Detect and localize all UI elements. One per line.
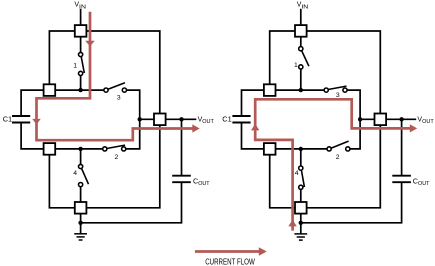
- wire node to switch 4: [80, 149, 82, 165]
- wire node to switch 4 (right): [300, 149, 302, 166]
- wire COUT bottom to ground return: [81, 182, 182, 223]
- switch 2 (right, open): [327, 141, 350, 151]
- pin box SW1 (right): [264, 84, 276, 96]
- capacitor COUT (left): [172, 176, 191, 183]
- current arrow down at VIN (left): [85, 41, 95, 47]
- switch 2 (left, conducting): [103, 145, 126, 151]
- junction node ground return (left): [78, 221, 82, 225]
- wire rail SW2: pin box to switch 2: [55, 148, 103, 150]
- wire VIN stem (left): [80, 9, 82, 25]
- pin box SW2 (left): [44, 143, 56, 155]
- svg-text:1: 1: [294, 62, 298, 69]
- wire top rail left segment (right): [270, 31, 295, 85]
- wire output node down to COUT (right): [401, 119, 403, 175]
- junction node switch1/rail (right): [299, 88, 303, 92]
- svg-text:4: 4: [295, 170, 299, 177]
- current flow legend arrow: [195, 247, 267, 256]
- junction node VOUT output (left): [179, 117, 183, 121]
- switch 3 (left, open): [104, 83, 127, 92]
- pin box GND (left): [75, 202, 87, 214]
- junction node switch1/rail (left): [78, 88, 82, 92]
- junction node VOUT box left side: [138, 117, 142, 121]
- pin box SW1 (left): [44, 84, 56, 96]
- wire top rail right segment: [86, 31, 159, 114]
- junction node VOUT output (right): [399, 117, 403, 121]
- wire ground rail to VOUT column (right): [307, 125, 381, 208]
- current arrow up at C1 (right): [251, 124, 259, 131]
- pin box VOUT (left): [154, 114, 166, 126]
- wire switch 3 to node VOUT-left: [126, 90, 154, 119]
- svg-text:C1: C1: [3, 115, 12, 124]
- wire ground rail to VOUT column: [86, 125, 159, 208]
- junction node ground return (right): [299, 221, 303, 225]
- wire rail SW1: C1 top corner to pin box: [21, 90, 43, 116]
- pin box SW2 (right): [264, 143, 276, 155]
- wire switch 3 to node VOUT (right): [347, 90, 375, 119]
- wire switch 1 to rail SW1: [80, 75, 82, 90]
- svg-text:1: 1: [73, 62, 77, 69]
- wire C1 bottom to rail SW2 (right): [242, 123, 264, 149]
- wire GND box to ground symbol: [80, 214, 82, 234]
- wire top rail left segment: [49, 31, 74, 85]
- capacitor COUT (right): [392, 176, 411, 183]
- wire COUT bottom to ground return (right): [301, 182, 402, 223]
- current arrow right at VOUT (right): [410, 124, 417, 132]
- pin box VIN (left): [75, 25, 87, 37]
- svg-text:3: 3: [336, 92, 340, 99]
- junction node VOUT box left side (right): [358, 117, 362, 121]
- current arrow up at ground (right): [288, 220, 296, 227]
- wire rail SW1: pin box to switch 3 (right): [276, 89, 325, 91]
- wire rail SW1: C1 top corner to pin box (right): [242, 90, 264, 116]
- wire C1 bottom to rail SW2: [21, 123, 43, 149]
- switch 1 (left, conducting): [79, 52, 85, 75]
- wire switch 4 to GND pin box (right): [300, 189, 302, 202]
- wire top rail right segment (right): [307, 31, 381, 114]
- wire GND box to ground symbol (right): [300, 214, 302, 234]
- wire rail SW1: pin box to switch 3: [55, 89, 104, 91]
- wire VIN stem (right): [300, 9, 302, 25]
- pin box VOUT (right): [375, 114, 387, 126]
- wire rail SW2: pin box to switch 2 (right): [276, 148, 328, 150]
- current arrow down at C1 (left): [32, 119, 40, 125]
- junction node switch4/rail (left): [78, 147, 82, 151]
- wire VOUT box to output node: [166, 118, 197, 120]
- wire switch 2 to node VOUT-left: [126, 119, 140, 149]
- svg-text:2: 2: [115, 154, 119, 161]
- pin box VIN (right): [295, 25, 307, 37]
- svg-text:C1: C1: [222, 115, 231, 124]
- svg-text:3: 3: [117, 94, 121, 101]
- svg-text:4: 4: [73, 170, 77, 177]
- svg-text:CURRENT FLOW: CURRENT FLOW: [205, 257, 255, 266]
- switch 4 (left, open): [79, 164, 89, 186]
- wire VOUT box to output node (right): [386, 118, 416, 120]
- current flow path (right circuit, red): [255, 99, 410, 230]
- wire VIN box to switch 1: [80, 37, 82, 53]
- wire switch 1 to rail (right): [300, 69, 302, 90]
- wire output node down to COUT: [181, 119, 183, 175]
- svg-text:2: 2: [336, 154, 340, 161]
- current flow path (left circuit, red): [37, 12, 194, 140]
- wire SW2 pin to ground rail (right): [270, 155, 295, 208]
- capacitor C1 (right flying cap): [232, 116, 250, 123]
- ground (right): [294, 234, 307, 240]
- switch 4 (right, conducting): [299, 166, 305, 189]
- ground (left): [74, 234, 87, 240]
- wire switch 2 to node VOUT (right): [350, 119, 360, 149]
- switch 1 (right, open): [299, 47, 309, 69]
- wire VIN box to switch 1 (right): [300, 37, 302, 47]
- wire SW2 pin to ground rail: [49, 155, 74, 208]
- capacitor C1 (left flying cap): [12, 116, 30, 123]
- current arrow right at VOUT (left): [192, 124, 199, 132]
- pin box GND (right): [295, 202, 307, 214]
- wire switch 4 to GND pin box: [80, 187, 82, 203]
- switch 3 (right, conducting): [324, 86, 347, 92]
- junction node switch4/rail (right): [299, 147, 303, 151]
